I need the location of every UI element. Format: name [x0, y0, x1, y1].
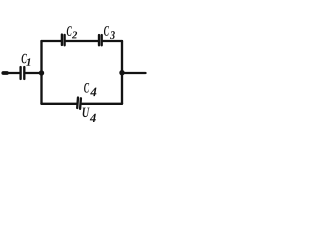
terminal left: [3, 71, 7, 75]
label C3: [104, 26, 115, 39]
label C1: [22, 54, 31, 66]
wire C3-to-corner: [103, 40, 122, 42]
wire right horizontal: [122, 72, 146, 74]
capacitor C2: [62, 35, 65, 46]
node left junction: [39, 70, 44, 75]
wire C1-to-node: [25, 72, 41, 74]
wire left vertical: [40, 41, 42, 104]
wire right vertical: [121, 41, 123, 104]
node right junction: [119, 70, 124, 75]
wire C4-to-corner: [82, 103, 122, 105]
capacitor C1: [21, 67, 25, 79]
capacitor C4: [77, 98, 81, 109]
label C4: [84, 83, 96, 96]
wire bottom-left segment: [42, 103, 77, 105]
wire C2-to-C3: [66, 40, 98, 42]
capacitor C3: [99, 35, 102, 45]
label C2: [67, 26, 77, 38]
wire top-left segment: [42, 40, 61, 42]
label U4: [83, 108, 96, 122]
wire left-to-C1: [3, 72, 20, 74]
